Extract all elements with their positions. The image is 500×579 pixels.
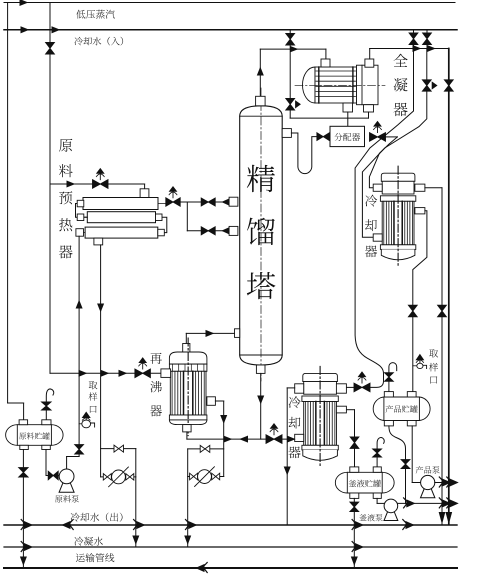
condenser shell [315,67,357,103]
condenser nozzle RB [364,105,374,112]
valve pump suction [48,471,58,480]
label 全凝器 [394,54,408,67]
kettle tank nozzle RT [373,467,381,472]
label 釜液贮罐 [349,480,357,487]
valve on preheater steam branch [93,180,109,189]
preheater top nozzle [140,189,149,198]
valve condensate bypass [200,445,210,452]
raw tank vent [46,389,53,420]
cooler2 nozzle RM [336,406,346,413]
valve drop B [426,30,428,49]
label 冷却水（入） [74,37,83,45]
reboiler steam nozzle LM [161,369,171,378]
flowmeter reboiler condensate [198,470,212,484]
valve distributor outlet [370,133,386,142]
cooler2 nozzle LT [295,384,304,393]
valve feed outlet [166,198,180,206]
valve feed lower [201,227,215,235]
reboiler vessel 再沸器 [169,352,207,364]
column top vapor pipe [259,49,261,96]
product tank outlet line [389,426,406,504]
label 原料泵 [55,495,63,502]
product tank 产品贮罐 [373,397,430,421]
valve on steam riser [46,43,55,55]
raw tank 原料贮罐 [6,425,63,446]
label 取样口 left [89,381,98,389]
raw tank nozzle RT [42,420,51,425]
condenser nozzle RT [365,59,374,67]
valve into distributor [317,133,330,141]
valve pre-meter [103,474,111,481]
label 冷却器 right [365,195,377,207]
column bottom nozzle [256,365,265,373]
top-right header [370,48,449,50]
condenser bypass pipe [289,49,291,118]
preheater condensate drain [100,245,102,477]
condenser right box [357,65,379,105]
preheater pass 2 shell [87,212,155,223]
cooler1 product outlet pipe [413,211,427,392]
condensate header drops [347,112,349,126]
preheater pass 3 inner tube [79,232,162,234]
steam main 低压蒸汽 line [4,2,455,4]
valve kettle tank inlet [350,437,359,449]
kettle tank nozzle LT [350,467,359,472]
valve raw drain [19,468,28,478]
line B with D2 diagonal [362,49,426,238]
kettle tank drain [353,498,355,568]
kettle pump 釜液泵 [384,512,398,521]
raw tank to pump [45,450,47,476]
label 低压蒸汽 [76,10,85,19]
preheater pass 3 shell [85,227,158,238]
column centerline [260,88,262,381]
sample point right [413,365,417,367]
preheater left return bend [76,204,88,218]
valve preheater condensate bypass [114,445,124,452]
label 原料贮罐 [19,432,26,439]
steam branch to preheater [50,183,145,185]
condenser centerline [295,84,385,86]
cooler1 nozzle LT [373,184,382,191]
valve steam to reboiler [135,369,151,378]
steam header to reboiler [50,372,161,374]
raw tank drain [22,450,24,569]
product pump discharge [435,482,454,484]
condensate main [4,546,457,548]
cooler1 cw outlet pipe [425,187,442,189]
valve feed riser [75,445,84,455]
kettle tank vent [377,438,384,467]
U seal from column [291,133,317,174]
valve kettle header [266,435,282,444]
valve on line B [422,80,431,91]
label 运输管线 [76,553,85,562]
line C right border [448,49,450,525]
reboiler bottom nozzle [183,425,191,432]
condenser tubes [316,70,356,72]
flowmeter preheater condensate [112,470,126,484]
valve cooling branch at column top [289,30,291,49]
reboiler condensate bypass branch [188,448,224,450]
preheater pass 1 inner tube [77,203,167,205]
sample point left [79,423,82,425]
label 冷却水（出） [71,513,80,522]
label 产品贮罐 [386,405,394,413]
cooler1 nozzle RT [415,184,425,191]
label 冷却器 bottom [289,396,301,408]
cooler1 nozzle RM [415,208,425,214]
product tank nozzle RB [407,421,416,426]
reboiler top nozzle [183,344,190,353]
valve meter left [190,473,198,480]
valve post-meter [126,474,134,481]
valve cooler1 cw outlet [438,305,447,317]
cooler2 nozzle LB [295,434,304,441]
label 分配器 [334,133,342,141]
column lower left nozzle [235,329,240,338]
raw pump discharge [66,457,68,470]
condenser nozzle LT [321,59,330,67]
label 冷凝水 [74,537,83,546]
raw tank nozzle RB [42,445,51,449]
product pump 产品泵 [421,489,435,498]
kettle header [186,432,188,439]
column feed nozzle upper [229,197,238,206]
valve meter right [212,473,220,480]
distillate to junction [386,136,398,138]
column bottoms drain [260,373,262,439]
preheater pass 1 shell [83,198,158,210]
preheater feed riser [78,236,80,444]
condenser left head [303,67,316,103]
cooler1 nozzle LB [373,234,382,241]
product tank nozzle LB [384,421,393,426]
label 产品泵 [416,466,424,474]
preheater condensate to main [135,449,137,547]
left border feed pipe [7,3,9,404]
condenser nozzle LB [343,103,353,112]
product tank nozzle RT [407,392,416,397]
column right nozzle [282,129,291,138]
valve on bypass [286,99,295,111]
label 再沸器 [150,353,162,364]
cooler2 vessel 冷却器 [303,373,338,381]
kettle tank 釜液贮罐 [335,472,394,493]
line A with D1 diagonal [355,49,413,388]
cooler2 process connects [288,437,295,442]
kettle tank to pump [376,498,378,503]
steam riser pipe [49,3,51,374]
column top nozzle [256,96,266,106]
product tank nozzle LT [384,392,393,397]
raw tank nozzle LT [19,420,28,425]
feed line lower branch [186,202,188,231]
preheater feed inlet stub [76,229,84,237]
feed line to column [167,201,230,203]
valve feed upper [201,198,215,206]
cooler1 vessel 冷却器 [381,173,415,181]
transport main [4,567,457,569]
reboiler vapor line to column [185,333,187,343]
column feed nozzle lower [229,226,238,235]
cooler2 cw out [287,387,295,389]
product tank vent [389,363,397,392]
distributor box 分配器 [330,126,365,146]
valve product line [408,305,417,317]
raw tank nozzle LB [20,445,29,449]
kettle tank nozzle LB [350,493,359,498]
reboiler condensate meter run [188,476,224,478]
raw pump 原料泵 [59,483,74,493]
preheater condensate branch [101,448,136,450]
reboiler condensate nozzle RM [207,397,216,406]
preheater right return bend [158,217,167,232]
preheater pass 2 inner tube [81,216,162,218]
cooling water outlet main [4,524,457,526]
product tank to pump suction [411,426,413,483]
reboiler condensate drain [215,400,223,402]
label 精馏塔 [247,165,275,192]
cooling water inlet main line [4,29,457,31]
kettle pump discharge [398,502,454,504]
label 原料预热器 [59,139,72,152]
D3 distillate diagonal [369,137,397,188]
kettle tank nozzle RB [373,493,381,498]
preheater condensate nozzle [94,238,103,245]
cooler2 nozzle RT [336,384,346,393]
reboiler condensate to main [187,449,189,547]
valve kettle drain [350,502,359,512]
label 釜液泵 [359,514,366,521]
valve on line C [444,80,453,91]
label 取样口 right [429,349,438,357]
valve drop A [413,30,415,49]
kettle cooler outlet pipe [346,409,354,411]
column 精馏塔 shell [240,106,283,365]
valve cooler2 cw inlet [346,386,354,388]
preheater meter run [101,476,136,478]
